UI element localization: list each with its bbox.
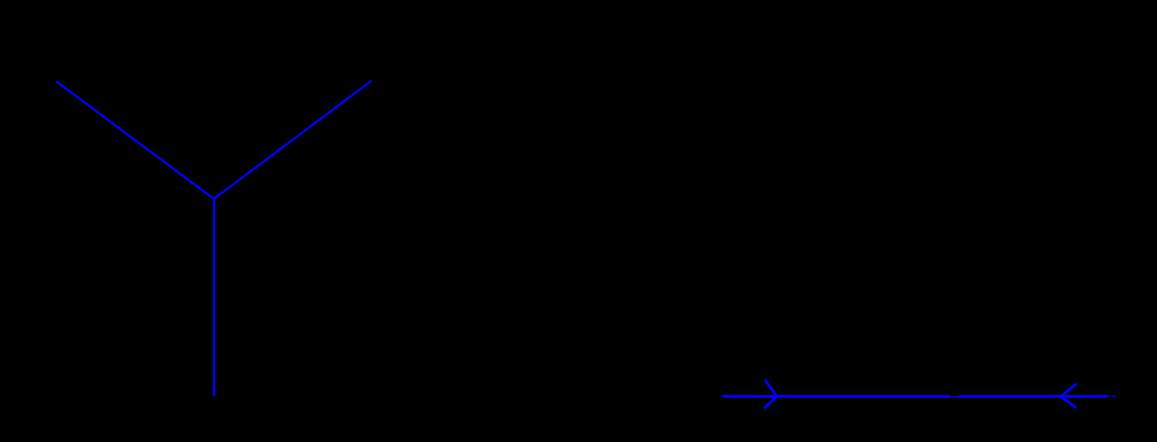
arrowhead pointing right (left arrow of dimension) [765,381,777,408]
wire: Y vertical leg [213,198,215,396]
wire: Y left arm [56,81,214,198]
arrowhead pointing left (right arrow of dimension) [1061,384,1076,407]
wire: right-end dash 2 (under label) [1112,395,1116,397]
wire: dimension line thin middle sliver (under label) [950,396,960,398]
wire: right-end dash 1 (under label) [1107,395,1110,397]
node A (Y junction) [0,0,1,1]
wire: Y right arm [214,81,372,199]
wire: dimension line left span [722,395,950,398]
wire: dimension line right span [959,395,1107,398]
